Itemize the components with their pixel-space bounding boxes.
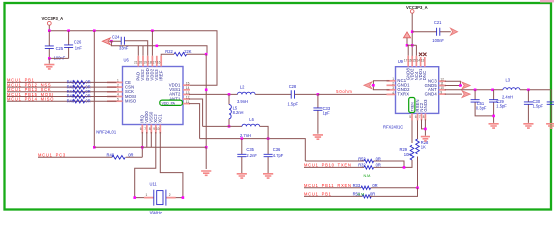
junction <box>182 196 185 199</box>
wire NC2/GND3 to ground <box>422 119 426 135</box>
svg-text:1pF: 1pF <box>323 110 331 115</box>
svg-text:2.7nH: 2.7nH <box>240 133 251 138</box>
svg-text:17: 17 <box>152 61 156 65</box>
svg-text:10K: 10K <box>404 152 412 157</box>
pin VSS2 19 <box>142 56 144 67</box>
svg-text:16: 16 <box>157 61 161 65</box>
svg-text:19: 19 <box>143 61 147 65</box>
svg-text:MCU1_PB11_RXEN: MCU1_PB11_RXEN <box>304 183 352 188</box>
svg-text:C26: C26 <box>74 39 82 44</box>
svg-text:100nF: 100nF <box>432 38 444 43</box>
svg-text:100nF: 100nF <box>54 55 66 60</box>
crystal U11 <box>135 181 183 215</box>
svg-text:L2: L2 <box>240 85 245 90</box>
capacitor C26 <box>64 31 82 59</box>
wire NC3 to GND5 <box>445 81 462 85</box>
wire ANT1 branch <box>189 99 203 126</box>
resistor R45 <box>67 94 91 99</box>
capacitor C29 <box>489 90 507 123</box>
node MCU1_PB13_SCK row <box>7 87 117 92</box>
svg-text:1.5pF: 1.5pF <box>533 103 544 108</box>
junction <box>151 29 154 32</box>
svg-text:1nF: 1nF <box>75 46 83 51</box>
svg-text:1: 1 <box>392 77 394 81</box>
no-connect X <box>419 53 422 56</box>
resistor R53 <box>353 192 376 198</box>
capacitor C35 <box>237 139 257 173</box>
junction <box>93 29 96 32</box>
svg-text:8: 8 <box>423 115 425 119</box>
svg-text:9: 9 <box>153 127 155 131</box>
svg-text:R22: R22 <box>165 49 173 54</box>
junction <box>241 137 244 140</box>
wire VDD3 drop <box>151 31 153 56</box>
inductor L6 <box>203 117 269 139</box>
svg-text:2: 2 <box>117 83 119 87</box>
ground <box>263 174 273 178</box>
pin VSS0 8 <box>150 125 152 134</box>
pin VDD2 17 <box>151 56 153 67</box>
svg-text:R48: R48 <box>107 152 115 157</box>
svg-text:R46: R46 <box>67 98 75 103</box>
junction <box>48 29 51 32</box>
svg-text:3: 3 <box>117 88 119 92</box>
junction <box>527 89 530 92</box>
svg-text:GND4: GND4 <box>425 91 438 96</box>
svg-text:R32: R32 <box>358 163 366 168</box>
junction <box>141 146 144 149</box>
wire PAD/VSS2 drops <box>138 46 143 56</box>
junction <box>411 30 414 33</box>
pin RXEN 6 <box>417 113 419 120</box>
wire VDD0 drop <box>146 132 148 147</box>
node MCU1_PB1 row <box>7 78 117 83</box>
pin GND2 3 <box>387 89 396 91</box>
pin NC2 7 <box>421 113 423 120</box>
wire NC1/GND1/GND2 to port <box>372 81 390 90</box>
junction <box>110 40 113 43</box>
pin GND8 17 <box>407 56 409 67</box>
node MCU1_PB1 row (bottom) <box>304 192 362 197</box>
svg-text:1.5pF: 1.5pF <box>496 103 507 108</box>
junction <box>156 45 159 48</box>
capacitor C28 <box>288 84 318 106</box>
pin CE 1 <box>107 81 123 83</box>
junction <box>424 128 427 131</box>
svg-text:7: 7 <box>144 127 146 131</box>
svg-text:50ohm: 50ohm <box>336 89 352 94</box>
svg-text:R33: R33 <box>353 183 361 188</box>
wire IRQ to R48 <box>126 132 143 157</box>
wire cap bottoms <box>49 57 68 59</box>
capacitor C30 <box>524 90 544 123</box>
junction <box>403 166 406 169</box>
svg-text:14: 14 <box>417 59 421 63</box>
wire smudge top-right <box>540 0 554 2</box>
port arrow (C24 net) <box>102 38 110 45</box>
capacitor C21 <box>412 20 451 43</box>
svg-text:0.3pF: 0.3pF <box>476 105 487 110</box>
svg-text:TXRX: TXRX <box>397 92 409 97</box>
resistor R33 <box>353 183 378 189</box>
svg-text:10: 10 <box>156 127 160 131</box>
pin XC1 10 <box>159 125 161 134</box>
svg-text:6: 6 <box>140 127 142 131</box>
resistor R46 <box>67 98 91 103</box>
pin PAD 20 <box>137 56 139 67</box>
svg-text:8: 8 <box>149 127 151 131</box>
svg-text:NRF24L01: NRF24L01 <box>96 129 117 134</box>
svg-text:22K: 22K <box>184 49 192 54</box>
power port VCC3P3_A (left) <box>42 16 64 31</box>
junction <box>459 84 462 87</box>
wire vertical drop <box>93 31 95 148</box>
wire R52 to junction <box>374 161 404 167</box>
pin TXRX 4 <box>387 93 396 95</box>
pin VSS3 16 <box>156 56 158 67</box>
svg-text:U11: U11 <box>150 181 158 186</box>
resistor R42 <box>67 80 91 85</box>
pin ANT 10 <box>439 89 446 91</box>
pin MOSI 4 <box>107 96 123 98</box>
junction <box>228 93 231 96</box>
svg-text:17: 17 <box>404 59 408 63</box>
inductor L5 <box>229 94 244 126</box>
pin VSS1 14 <box>183 89 190 91</box>
svg-text:VCC3P3_A: VCC3P3_A <box>42 16 64 21</box>
junction <box>317 93 320 96</box>
junction <box>48 57 51 60</box>
pin ANT2 13 <box>183 93 190 95</box>
svg-text:VCC3P3_A: VCC3P3_A <box>406 5 428 10</box>
svg-text:0R: 0R <box>128 152 133 157</box>
svg-text:U9: U9 <box>398 59 404 64</box>
pin XC2 9 <box>155 125 157 134</box>
svg-text:MCU1_PB10_TXEN: MCU1_PB10_TXEN <box>304 163 352 168</box>
junction <box>93 146 96 149</box>
power arrow port <box>403 32 410 45</box>
junction <box>492 115 495 118</box>
wire R32 to R29 <box>374 160 412 167</box>
svg-text:L3: L3 <box>506 77 511 82</box>
svg-text:13: 13 <box>421 59 425 63</box>
pin NC4 15 <box>415 56 417 67</box>
svg-text:C25: C25 <box>56 46 64 51</box>
node MCU1_PC3 row <box>38 153 112 158</box>
svg-text:8.2nH: 8.2nH <box>233 110 244 115</box>
pin VDD1 14 <box>420 57 422 67</box>
capacitor C25 <box>45 31 66 61</box>
node MCU1_PB10_TXEN row <box>304 163 364 168</box>
svg-text:1: 1 <box>117 79 119 83</box>
port arrow (right 1) <box>462 82 470 89</box>
svg-text:15: 15 <box>186 82 190 86</box>
wire row B <box>94 146 206 148</box>
resistor R32 <box>358 163 381 179</box>
op IC U6 nRF24L01 <box>96 56 190 135</box>
svg-text:18: 18 <box>148 61 152 65</box>
junction <box>67 29 70 32</box>
inductor L2 <box>237 85 291 105</box>
junction <box>372 84 375 87</box>
svg-text:5: 5 <box>117 97 119 101</box>
resistor R52 <box>358 156 381 162</box>
pin GND3 8 <box>424 113 426 120</box>
ground (main) <box>201 147 211 175</box>
port arrow (right 2) <box>462 91 470 98</box>
wire ANT row <box>445 89 503 91</box>
svg-text:C35: C35 <box>246 147 254 152</box>
svg-text:4: 4 <box>117 93 119 97</box>
svg-text:4: 4 <box>392 91 394 95</box>
no-connect X <box>423 53 426 56</box>
pin IRQ 6 <box>141 125 143 134</box>
resistor R48 <box>107 152 134 159</box>
svg-text:IREF: IREF <box>158 70 163 80</box>
svg-text:3.9nH: 3.9nH <box>237 99 248 104</box>
pin NC1 1 <box>387 80 396 82</box>
pin NC3 12 <box>439 80 446 82</box>
wire R33 to node <box>371 187 418 189</box>
svg-text:XC1: XC1 <box>158 114 163 123</box>
resistor R29 <box>400 119 414 160</box>
junction <box>228 125 231 128</box>
resistor R22 <box>161 49 206 56</box>
svg-text:GND3: GND3 <box>423 99 428 112</box>
junction <box>411 44 414 47</box>
wire row A <box>200 139 306 161</box>
pin GND1 2 <box>387 84 396 86</box>
svg-text:2: 2 <box>392 82 394 86</box>
pin MISO 5 <box>107 100 123 102</box>
capacitor C33 <box>313 94 330 133</box>
svg-text:R29: R29 <box>400 147 408 152</box>
svg-text:6: 6 <box>415 115 417 119</box>
inductor L3 <box>502 77 551 99</box>
svg-text:VDD_PA: VDD_PA <box>162 101 176 105</box>
pin VDD2 16 <box>411 56 413 67</box>
svg-text:MISO: MISO <box>125 99 137 104</box>
node MCU1_PB14_MISO row <box>7 97 117 102</box>
wire GND spine <box>205 54 207 147</box>
capacitor C24 <box>109 35 148 56</box>
wire XC2 to crystal <box>135 132 156 198</box>
svg-text:R52: R52 <box>358 156 366 161</box>
pin IREF 15 <box>160 56 162 67</box>
svg-text:RFX2401C: RFX2401C <box>383 124 403 129</box>
capacitor C61 <box>471 90 494 116</box>
wire ANT2 RF row <box>189 93 238 95</box>
svg-text:0R: 0R <box>85 98 90 103</box>
ground <box>546 124 554 128</box>
svg-text:C21: C21 <box>434 20 442 25</box>
capacitor C62 (edge) <box>547 90 554 123</box>
svg-text:2: 2 <box>169 193 171 197</box>
svg-text:MCU1_PC3: MCU1_PC3 <box>38 153 66 158</box>
resistor R43 <box>67 84 91 89</box>
ground <box>237 174 247 178</box>
svg-text:C28: C28 <box>289 84 297 89</box>
pin VDD0 7 <box>146 125 148 134</box>
junction <box>205 89 208 92</box>
wire VSS0 drop <box>150 132 152 147</box>
pin DVDD 18 <box>147 56 149 67</box>
junction <box>133 196 136 199</box>
wire U9 top feeds <box>407 45 416 56</box>
svg-text:2.4nH: 2.4nH <box>502 95 513 100</box>
resistor R44 <box>67 89 91 94</box>
pin CSN 2 <box>107 86 123 88</box>
pin VDD1 15 <box>183 84 190 86</box>
junction <box>491 89 494 92</box>
capacitor C36 <box>264 139 284 173</box>
svg-text:C36: C36 <box>273 147 281 152</box>
svg-text:33nF: 33nF <box>119 46 129 51</box>
svg-text:5: 5 <box>409 115 411 119</box>
wire XC1 to crystal <box>160 132 183 198</box>
node MCU1_PB15_MOSI row <box>7 92 117 97</box>
svg-text:N.M.: N.M. <box>364 174 372 178</box>
wire TXEN upper branch <box>305 160 364 162</box>
op IC U9 RFX2401C <box>383 53 446 130</box>
wire 50ohm net <box>318 89 390 94</box>
port arrow (left) <box>364 82 372 89</box>
svg-text:1: 1 <box>146 193 148 197</box>
svg-text:14: 14 <box>186 86 190 90</box>
ground <box>44 58 54 69</box>
wire PB1 row to RXEN <box>370 188 418 197</box>
junction <box>474 89 477 92</box>
wire VDD_PA branch <box>189 104 200 139</box>
svg-text:4.7pF: 4.7pF <box>273 153 284 158</box>
resistor R28 <box>416 119 429 187</box>
wire rail2 <box>111 41 207 54</box>
svg-text:C24: C24 <box>112 35 120 40</box>
power port VCC3P3_A (right) <box>406 5 428 67</box>
wire rail1 VCC3P3_A <box>49 31 217 85</box>
pin ANT1 12 <box>183 98 190 100</box>
junction <box>406 44 409 47</box>
svg-text:7: 7 <box>419 115 421 119</box>
pin GND5 11 <box>439 85 446 87</box>
junction <box>205 53 208 56</box>
svg-text:L6: L6 <box>249 117 254 122</box>
pin GND4 9 <box>439 93 446 95</box>
junction <box>267 137 270 140</box>
node MCU1_PB12_NSS row <box>7 82 117 87</box>
pin VDD_PA 11 <box>183 103 190 105</box>
svg-text:9: 9 <box>440 90 442 94</box>
svg-text:1.5pF: 1.5pF <box>288 102 299 107</box>
svg-text:16MHz: 16MHz <box>149 211 162 214</box>
wire GND4 <box>445 93 462 95</box>
svg-text:20: 20 <box>139 61 143 65</box>
junction <box>416 187 419 190</box>
node MCU1_PB11_RXEN row <box>304 183 361 188</box>
svg-text:11: 11 <box>186 100 190 104</box>
svg-text:1K: 1K <box>421 145 426 150</box>
svg-text:DNC: DNC <box>422 71 427 81</box>
ground <box>313 135 323 139</box>
svg-text:N.M.: N.M. <box>358 193 366 197</box>
junction <box>205 146 208 149</box>
svg-text:15: 15 <box>412 59 416 63</box>
svg-text:3: 3 <box>392 86 394 90</box>
svg-text:U6: U6 <box>124 58 130 63</box>
pin TXEN 5 <box>411 113 413 120</box>
pin SCK 3 <box>107 91 123 93</box>
svg-text:2.2nF: 2.2nF <box>246 153 257 158</box>
port arrow (C21 net) <box>450 28 457 35</box>
ground <box>421 137 430 141</box>
pin DNC 13 <box>424 57 426 67</box>
svg-text:21: 21 <box>134 61 138 65</box>
ground <box>489 124 499 128</box>
ground <box>523 124 533 128</box>
